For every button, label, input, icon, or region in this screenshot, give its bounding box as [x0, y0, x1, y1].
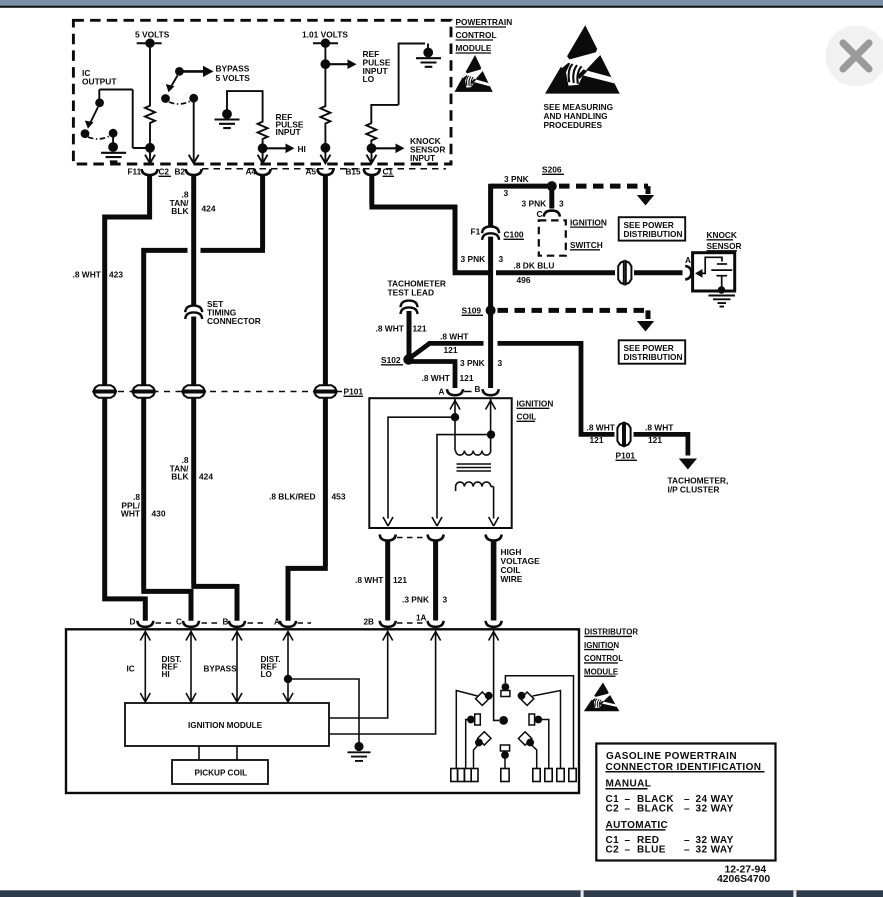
pickup coil links: [199, 746, 237, 760]
svg-text:INPUT: INPUT: [276, 127, 302, 137]
svg-text:F11: F11: [128, 168, 142, 177]
label S109: [462, 306, 484, 316]
svg-text:A: A: [274, 618, 280, 627]
wire S206 to ignition switch pin C: [549, 186, 554, 208]
svg-text:–: –: [684, 844, 690, 855]
svg-text:121: 121: [444, 345, 458, 355]
set timing connector: [185, 306, 202, 319]
svg-text:.8 WHT: .8 WHT: [73, 270, 102, 280]
svg-text:.8 BLK/RED: .8 BLK/RED: [269, 492, 316, 502]
distributor pin D connector: [137, 621, 153, 627]
svg-text:B: B: [475, 385, 481, 394]
ignition coil box: [369, 398, 511, 528]
svg-text:DISTRIBUTOR: DISTRIBUTOR: [584, 628, 638, 637]
svg-text:C: C: [537, 209, 543, 219]
svg-text:3: 3: [504, 188, 509, 198]
wire .8 WHT 121 S102 to tach cluster: [411, 341, 691, 456]
ground (IC output): [101, 153, 126, 162]
svg-text:IGNITION: IGNITION: [517, 399, 554, 409]
wire S102 to coil pin A: [411, 359, 458, 388]
svg-text:GASOLINE POWERTRAIN: GASOLINE POWERTRAIN: [606, 751, 737, 762]
svg-text:DISTRIBUTION: DISTRIBUTION: [624, 352, 683, 362]
svg-text:453: 453: [332, 492, 346, 502]
bypass switch: [161, 67, 212, 161]
resistor (5V pullup): [145, 104, 155, 125]
svg-text:SWITCH: SWITCH: [570, 240, 603, 250]
wire 5V to resistor: [149, 43, 151, 105]
svg-text:BLACK: BLACK: [637, 804, 674, 815]
wire B2 .8 TAN/BLK 424: [191, 175, 237, 621]
spark plug terminal blocks: [451, 769, 576, 782]
pin C connector (ignition switch): [544, 211, 560, 217]
coil internal wiring: [383, 399, 499, 526]
dashes between coil pins: [464, 391, 472, 393]
svg-text:121: 121: [590, 435, 604, 445]
svg-text:424: 424: [199, 472, 213, 482]
svg-text:.8 WHT: .8 WHT: [422, 373, 451, 383]
junction dot on REF LO line: [284, 675, 292, 683]
resistor (ref pulse hi): [258, 120, 268, 141]
label KNOCK SENSOR INPUT: [410, 136, 445, 163]
label .8 WHT 423: [73, 270, 124, 280]
ground branch (ref pulse hi): [222, 91, 263, 120]
svg-text:A: A: [439, 388, 445, 397]
wire A5 .8 BLK/RED 453 (to pin A): [286, 175, 328, 621]
svg-text:5 VOLTS: 5 VOLTS: [216, 73, 251, 83]
svg-text:–: –: [625, 804, 631, 815]
svg-text:121: 121: [648, 435, 662, 445]
svg-text:A4: A4: [246, 168, 257, 177]
distributor pin C connector: [183, 621, 199, 627]
label .8 WHT 121 (coil A wire): [422, 373, 474, 383]
ignition module box: [125, 703, 329, 746]
splice S109: [486, 305, 496, 315]
label 3 PNK 3 (top horizontal): [504, 174, 529, 198]
svg-text:4206S4700: 4206S4700: [717, 874, 770, 885]
label A B (coil pins): [439, 385, 481, 397]
ground (bypass circuit): [215, 120, 240, 129]
label HIGH VOLTAGE COIL WIRE: [501, 547, 541, 584]
svg-text:A5: A5: [306, 168, 317, 177]
svg-text:3: 3: [498, 358, 503, 368]
svg-text:BLK: BLK: [171, 472, 188, 482]
distributor ignition control module box: [66, 629, 579, 793]
svg-text:.3 PNK: .3 PNK: [402, 595, 429, 605]
pin labels F11 C2 B2 A4 A5 B15 C1: [128, 168, 395, 177]
coil primary winding: [456, 451, 491, 456]
svg-text:D: D: [130, 618, 136, 627]
resistor (knock input): [366, 122, 376, 143]
wire resistor to junction: [149, 125, 151, 148]
svg-text:3 PNK: 3 PNK: [460, 358, 485, 368]
svg-text:3 PNK: 3 PNK: [461, 254, 486, 264]
top chrome bar: [0, 0, 883, 6]
svg-text:496: 496: [517, 275, 531, 285]
svg-text:.8 WHT: .8 WHT: [355, 575, 384, 585]
IC output switch (transistor): [81, 90, 146, 152]
coil pin B connector: [483, 389, 499, 395]
svg-text:C: C: [176, 618, 182, 627]
coil core: [457, 464, 492, 471]
label C100: [504, 230, 525, 240]
label .8 TAN/BLK 424 lower: [170, 455, 190, 482]
svg-text:AUTOMATIC: AUTOMATIC: [606, 820, 669, 831]
wire tach test lead to S102: [407, 311, 412, 356]
label REF PULSE INPUT (HI): [276, 112, 304, 137]
arrow to see power distribution 1: [637, 195, 654, 206]
wire to pin A4 with arrow: [258, 148, 268, 163]
svg-text:IGNITION: IGNITION: [584, 641, 619, 650]
svg-text:121: 121: [460, 373, 474, 383]
label .8 WHT 121 (test lead): [376, 324, 427, 334]
HV line into rotor: [489, 631, 499, 720]
rotor center dot: [499, 716, 508, 725]
distributor cap towers and plug wires: [456, 676, 573, 769]
distributor pin 1A connector: [428, 621, 444, 627]
wire dashed S206 to power distribution: [559, 186, 648, 194]
BYPASS line pin B to module: [232, 631, 242, 702]
svg-text:32 WAY: 32 WAY: [696, 844, 734, 855]
svg-text:PROCEDURES: PROCEDURES: [544, 120, 603, 130]
svg-text:3 PNK: 3 PNK: [522, 199, 547, 209]
svg-text:A: A: [685, 256, 691, 265]
wire coil to distributor 2B (.8 WHT 121): [385, 540, 390, 621]
wire 1A to module: [329, 631, 441, 734]
svg-text:HI: HI: [298, 144, 306, 154]
svg-text:MODULE: MODULE: [456, 43, 492, 53]
pin A5 connector: [317, 169, 333, 175]
svg-text:CONTROL: CONTROL: [456, 30, 497, 40]
svg-text:IGNITION: IGNITION: [570, 217, 607, 227]
svg-text:P101: P101: [344, 387, 364, 397]
label .8 TAN/BLK 424 upper: [170, 190, 190, 217]
inline connector (496 wire): [618, 261, 631, 284]
svg-text:MODULE: MODULE: [584, 668, 618, 677]
junction dot ref pulse lo: [321, 59, 331, 69]
svg-text:INPUT: INPUT: [410, 153, 436, 163]
svg-text:121: 121: [413, 324, 427, 334]
svg-text:B15: B15: [346, 168, 361, 177]
label 3 PNK 3 (switch feed): [522, 199, 565, 209]
ESD symbol small (PCM): [454, 55, 493, 92]
svg-text:.8 WHT: .8 WHT: [587, 422, 616, 432]
svg-text:COIL: COIL: [517, 412, 537, 422]
P101 pass-through row dashed line: [118, 391, 342, 393]
ground (knock sensor): [709, 296, 736, 307]
label .8 WHT 121 (2B wire): [355, 575, 407, 585]
svg-text:430: 430: [152, 509, 166, 519]
arrow HI: [267, 144, 306, 155]
svg-text:S206: S206: [542, 165, 562, 175]
label .8 WHT 121 (S102 branch): [440, 331, 469, 355]
IC line pin D to module: [140, 631, 150, 702]
svg-text:C100: C100: [504, 230, 524, 240]
svg-text:.8 DK BLU: .8 DK BLU: [514, 261, 555, 271]
wire dashed S109 to power distribution: [498, 310, 649, 319]
connector P101 (wire 430): [133, 385, 155, 398]
svg-text:BYPASS: BYPASS: [216, 64, 250, 74]
svg-text:KNOCK: KNOCK: [707, 230, 737, 240]
label IGNITION SWITCH: [570, 217, 607, 250]
wire to pin B15 arrow: [367, 148, 377, 163]
connector P101 (tach wire): [617, 423, 630, 446]
junction and arrow to pin A5: [320, 125, 330, 163]
svg-text:CONNECTOR: CONNECTOR: [207, 316, 261, 326]
svg-text:423: 423: [109, 270, 123, 280]
label .8 PPL/WHT 430: [121, 492, 141, 519]
connector P101 (wire 424): [183, 385, 205, 398]
label .8 DK BLU 496: [514, 261, 555, 285]
splice S102: [403, 354, 413, 364]
svg-text:WHT: WHT: [121, 509, 141, 519]
label IC OUTPUT: [82, 68, 117, 87]
wire 1.01V down: [324, 43, 326, 105]
svg-text:DISTRIBUTION: DISTRIBUTION: [624, 229, 683, 239]
wire A4 .8 PPL/WHT 430 (to pin C): [141, 175, 265, 621]
svg-text:MANUAL: MANUAL: [606, 779, 652, 790]
svg-text:424: 424: [202, 204, 216, 214]
coil secondary winding: [456, 482, 491, 487]
svg-text:1A: 1A: [416, 614, 427, 623]
svg-text:LO: LO: [363, 74, 375, 84]
svg-text:SENSOR: SENSOR: [707, 241, 742, 251]
label IGNITION COIL: [517, 399, 554, 422]
svg-text:BLUE: BLUE: [637, 844, 666, 855]
arrow REF PULSE INPUT LO: [325, 59, 356, 69]
connector P101 (wire 423): [94, 385, 116, 398]
pin B15 connector: [364, 169, 380, 175]
doc number: [717, 865, 770, 885]
svg-text:S102: S102: [381, 355, 401, 365]
svg-text:P101: P101: [616, 451, 636, 461]
junction dot A4 net: [258, 141, 268, 154]
wire junction to internal ground: [288, 679, 359, 743]
svg-text:S109: S109: [462, 306, 482, 316]
label .8 WHT 121 (after P101): [645, 422, 674, 445]
arrow to tachometer i/p cluster: [679, 458, 697, 469]
svg-text:PICKUP COIL: PICKUP COIL: [195, 769, 248, 778]
svg-text:C2: C2: [606, 804, 620, 815]
wire .8 DK BLU 496 to knock sensor: [496, 270, 683, 275]
powertrain control module dashed box: [73, 20, 451, 164]
svg-text:CONTROL: CONTROL: [584, 654, 623, 663]
connector P101 (wire 453): [314, 385, 336, 398]
svg-text:LO: LO: [261, 670, 273, 679]
svg-text:BLK: BLK: [171, 206, 188, 216]
svg-text:C2: C2: [159, 168, 170, 177]
distributor pin 2B connector: [380, 621, 396, 627]
DIST REF HI line pin C to module: [186, 631, 196, 702]
label .8 BLK/RED 453: [269, 492, 346, 502]
distributor pin A connector: [280, 621, 296, 627]
pin F11 connector: [142, 169, 158, 175]
ignition switch dashed box: [539, 220, 566, 255]
svg-text:1.01 VOLTS: 1.01 VOLTS: [302, 30, 348, 40]
svg-text:32 WAY: 32 WAY: [696, 804, 734, 815]
DIST REF LO line pin A to module: [283, 631, 293, 702]
gasoline powertrain connector identification box: [596, 744, 775, 861]
wire 2B to module: [329, 631, 393, 718]
svg-text:B2: B2: [175, 168, 186, 177]
svg-text:.8 WHT: .8 WHT: [376, 324, 405, 334]
label 3 PNK 3 (left of C100): [461, 254, 504, 264]
arrow to see power distribution 2: [637, 321, 654, 332]
label S102: [381, 355, 403, 365]
svg-text:–: –: [625, 844, 631, 855]
wire high voltage coil wire: [491, 540, 497, 621]
label P101 (row): [344, 387, 364, 397]
svg-text:B: B: [223, 618, 229, 627]
dashes between distributor pins: [156, 622, 427, 624]
junction dot B15 net: [367, 142, 377, 153]
svg-text:3 PNK: 3 PNK: [504, 174, 529, 184]
ESD symbol large: [545, 25, 620, 93]
wire coil to distributor 1A (.3 PNK 3): [433, 540, 438, 621]
wire 3 PNK vertical (C100 to coil B): [488, 184, 493, 388]
svg-text:C1: C1: [383, 168, 394, 177]
svg-text:5 VOLTS: 5 VOLTS: [135, 30, 170, 40]
label TACHOMETER TEST LEAD: [388, 279, 446, 298]
svg-text:.8 WHT: .8 WHT: [645, 422, 674, 432]
labels IC DIST.REF HI BYPASS DIST.REF LO: [127, 655, 281, 679]
arrow into pin B2: [189, 155, 199, 164]
svg-text:I/P CLUSTER: I/P CLUSTER: [668, 485, 720, 495]
PCM pin row thin dashed line: [202, 168, 446, 170]
bottom chrome bar: [0, 890, 883, 897]
pickup coil box: [172, 760, 268, 784]
svg-text:3: 3: [443, 595, 448, 605]
knock sensor box: [693, 253, 735, 291]
svg-text:WIRE: WIRE: [501, 574, 523, 584]
close button: [826, 26, 883, 87]
label .3 PNK 3: [402, 595, 448, 605]
svg-text:TEST LEAD: TEST LEAD: [388, 288, 435, 298]
label POWERTRAIN CONTROL MODULE: [456, 17, 513, 53]
svg-text:2B: 2B: [364, 618, 375, 627]
label REF PULSE INPUT LO: [363, 49, 391, 84]
label 3 PNK 3 (coil B wire): [460, 358, 503, 368]
svg-text:121: 121: [393, 575, 407, 585]
svg-text:IC: IC: [127, 665, 135, 674]
label KNOCK SENSOR: [707, 230, 742, 251]
node 1.01 VOLTS terminal: [302, 30, 348, 48]
wire junction to pin F11 with arrow: [145, 148, 155, 163]
svg-text:F1: F1: [471, 227, 481, 237]
label SET TIMING CONNECTOR: [207, 299, 261, 326]
svg-text:3: 3: [559, 199, 564, 209]
connector F1 C100: [482, 227, 499, 240]
svg-text:OUTPUT: OUTPUT: [82, 77, 117, 87]
label BYPASS 5 VOLTS: [216, 64, 251, 84]
ground (knock circuit): [416, 58, 441, 67]
pin B2 connector: [186, 169, 202, 175]
distributor HV pin connector: [486, 621, 502, 627]
internal ground (distributor): [348, 742, 371, 761]
svg-text:–: –: [684, 804, 690, 815]
splice S206: [547, 181, 557, 191]
svg-text:POWERTRAIN: POWERTRAIN: [456, 17, 513, 27]
wire F11 .8 WHT 423 (to pin D): [102, 175, 149, 621]
svg-text:C2: C2: [606, 844, 620, 855]
dashes between coil bottom pins: [397, 537, 427, 539]
coil bottom pin connectors: [380, 535, 396, 541]
ESD symbol small (distributor): [584, 682, 620, 711]
coil pin A connector: [447, 389, 463, 395]
box SEE POWER DISTRIBUTION 1: [619, 217, 686, 240]
label TACHOMETER I/P CLUSTER: [668, 476, 729, 495]
junction dot F11 net: [145, 143, 155, 153]
label P101 (tach): [616, 451, 638, 461]
coil secondary stubs: [456, 487, 494, 491]
resistor (ref pulse lo): [320, 105, 330, 126]
label .8 WHT 121 (before P101): [587, 422, 616, 445]
label DISTRIBUTOR IGNITION CONTROL MODULE: [584, 628, 638, 677]
arrow KNOCK SENSOR INPUT: [376, 144, 405, 154]
label S206: [542, 165, 564, 175]
box SEE POWER DISTRIBUTION 2: [619, 340, 686, 363]
pin A4 connector: [255, 169, 271, 175]
knock input ground branch: [371, 44, 433, 123]
svg-text:BYPASS: BYPASS: [204, 665, 238, 674]
knock sensor pin A connector: [685, 266, 691, 280]
svg-text:.8 WHT: .8 WHT: [440, 331, 469, 341]
svg-text:3: 3: [499, 254, 504, 264]
svg-text:IGNITION MODULE: IGNITION MODULE: [188, 721, 263, 730]
node 5 VOLTS terminal: [135, 30, 170, 48]
distributor pin B connector: [229, 621, 245, 627]
knock sensor internals: [695, 257, 732, 294]
tachometer test lead connector: [401, 301, 418, 314]
svg-text:HI: HI: [162, 670, 170, 679]
pin labels D C B A 2B 1A: [130, 614, 427, 627]
label SEE MEASURING AND HANDLING PROCEDURES: [544, 102, 614, 130]
wire B15 3 PNK (to splice): [369, 175, 547, 273]
legend text: [606, 751, 762, 856]
